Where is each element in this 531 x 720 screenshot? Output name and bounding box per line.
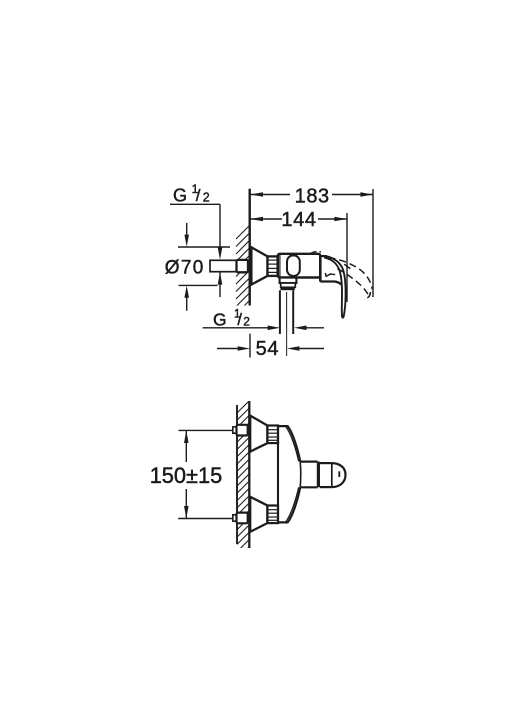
body silhouette (plan) outer — [278, 426, 300, 461]
dimension 183 arrowheads — [250, 192, 373, 197]
handle base top edge — [320, 255, 327, 257]
cartridge dome cap (side view) — [287, 255, 300, 276]
label G 1/2 (inlet, top) — [173, 182, 210, 206]
svg-text:Ø70: Ø70 — [165, 258, 205, 279]
union nut (side view) — [268, 256, 278, 276]
dimension 150±15 extension lines — [178, 430, 236, 518]
small solid mark near lever base — [325, 273, 331, 276]
wall hatching (bottom view) — [237, 401, 249, 559]
handle dome (plan) — [332, 463, 346, 487]
pipe centerline — [286, 292, 288, 356]
escutcheon cone (side view) — [251, 247, 267, 284]
dimension 144 line — [251, 218, 348, 220]
dimension 144 arrowheads — [250, 217, 347, 222]
lever swing dashed curve lower — [338, 269, 369, 296]
outlet dark band — [281, 287, 295, 290]
svg-text:G: G — [213, 309, 227, 329]
dimension 54 extension line (wall) — [249, 334, 251, 358]
dimension 144 extension line — [346, 213, 348, 302]
body edge between neck corners — [299, 462, 302, 488]
lower escutcheon cone (plan) — [250, 497, 267, 532]
Ø70 extension lines — [178, 247, 230, 285]
dome tick — [338, 471, 340, 477]
label G 1/2 (outlet, bottom) — [213, 308, 250, 329]
dimension 183 line — [251, 194, 374, 196]
wall lines (bottom view) — [236, 405, 238, 544]
square union nipple — [237, 260, 249, 272]
svg-text:/: / — [196, 186, 201, 205]
svg-text:2: 2 — [203, 191, 210, 205]
dimension 150±15 arrowheads — [184, 431, 189, 519]
short dash near lever base — [330, 273, 336, 276]
svg-text:2: 2 — [243, 314, 250, 328]
upper escutcheon cone (plan) — [250, 416, 267, 452]
outlet ring — [281, 283, 296, 287]
dimension 183 extension line — [372, 189, 374, 297]
joint line body/handle — [319, 256, 322, 282]
mixer body (side view) — [278, 254, 321, 278]
shower pipe — [279, 290, 281, 334]
handle joint line (plan) — [317, 462, 320, 488]
G1/2 opposing arrow up — [219, 273, 221, 298]
upper inlet stub — [233, 427, 237, 433]
svg-text:G: G — [173, 186, 187, 206]
svg-text:150±15: 150±15 — [150, 463, 223, 488]
body silhouette inner curves — [286, 427, 299, 462]
lower union nut (plan) — [267, 506, 278, 524]
G1/2 outlet left-pointing arrow from right — [306, 327, 324, 329]
inlet shaft behind wall — [210, 260, 237, 271]
dash-dot arc on cap — [310, 252, 324, 254]
handle base underside — [320, 282, 345, 290]
Ø70 arrows (outside) — [186, 223, 188, 236]
outlet flange — [280, 278, 297, 283]
short diagonal dash fragment — [344, 264, 350, 268]
wall line (top view) — [248, 189, 250, 306]
label Ø70 — [165, 258, 205, 279]
lever handle (solid, down position) — [325, 256, 346, 318]
handle cap (plan) — [320, 462, 332, 464]
wall hatching (top view) — [236, 225, 250, 314]
dimension 54 left arrow — [217, 348, 238, 350]
lower square union — [237, 513, 248, 524]
upper square union — [237, 425, 248, 436]
lever swing dashed curve upper — [329, 258, 373, 290]
upper union nut (plan) — [267, 426, 278, 444]
dashed lever tip hook at extension line — [367, 292, 370, 298]
lower inlet stub — [233, 515, 237, 521]
svg-text:54: 54 — [256, 338, 279, 360]
svg-text:183: 183 — [295, 186, 330, 208]
dimension 150±15 line — [185, 430, 187, 518]
body mounting face line (plan) — [277, 426, 279, 523]
svg-text:144: 144 — [281, 209, 316, 231]
handle neck (plan) — [300, 461, 318, 463]
dimension 54 right arrow — [299, 348, 324, 350]
G1/2 outlet underline + right arrow — [203, 327, 269, 329]
label G1/2 underline + leader arrow down — [170, 203, 220, 205]
svg-text:/: / — [237, 311, 242, 329]
